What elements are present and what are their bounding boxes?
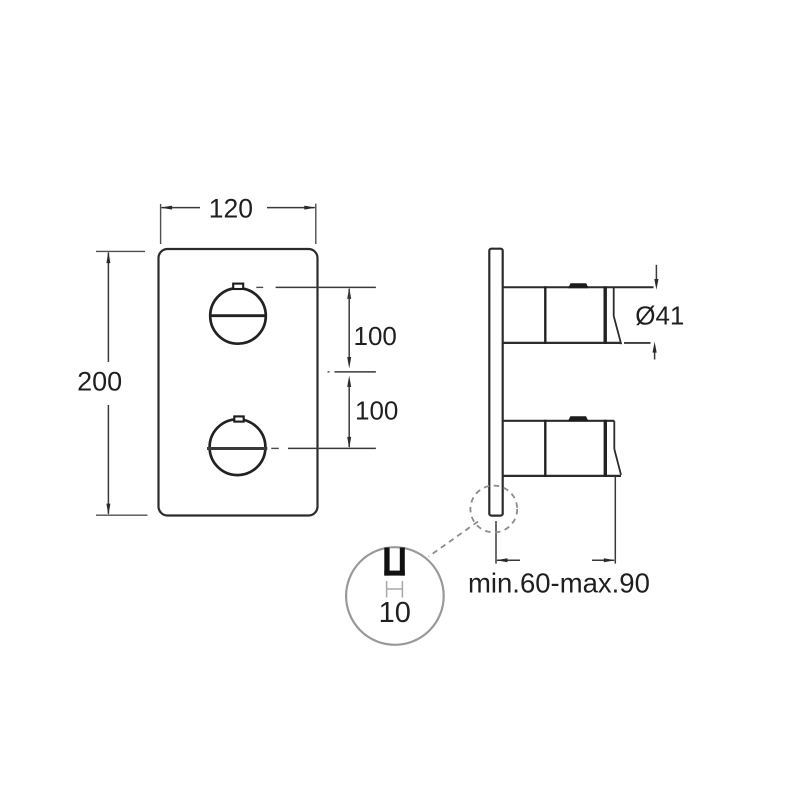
dim 10 line	[387, 588, 403, 590]
upper knob side: end thick vertical	[604, 286, 607, 344]
lower knob side: cap vertical	[613, 421, 615, 449]
svg-text:100: 100	[355, 396, 398, 426]
dim 120 line right segment with arrow	[267, 207, 315, 209]
dim 120 right extension line	[315, 204, 317, 244]
dim 10 right tick	[401, 581, 403, 598]
lower knob slot line	[207, 447, 267, 450]
upper knob circle	[210, 288, 266, 344]
dia41 bottom extension line	[624, 342, 651, 344]
wall plate front view	[159, 249, 318, 516]
lower knob side: top line	[503, 420, 615, 422]
dim 100 top extension line	[276, 286, 376, 288]
dia41 lower arrow segment (points up)	[654, 351, 656, 360]
dim 100 bottom extension line	[288, 447, 376, 449]
min60max90 right extension line	[614, 477, 616, 564]
plate profile U shape: right bar	[400, 548, 405, 576]
upper knob index tab	[233, 284, 243, 289]
upper knob side: top line + dia41 top extension	[503, 286, 654, 288]
dim 200 top extension line	[96, 250, 145, 252]
upper knob side: bottom line	[503, 342, 621, 344]
dim 200 bottom extension line	[96, 514, 148, 516]
dim 100 upper segment: arrow up, line, arrow down	[347, 287, 351, 299]
upper knob centerline dash	[256, 286, 263, 288]
min60max90 left extension line	[495, 521, 497, 564]
mid centerline dot	[328, 371, 330, 373]
upper knob side: inner vertical	[544, 286, 546, 344]
mid centerline	[335, 371, 376, 373]
svg-text:10: 10	[379, 597, 411, 629]
lower knob centerline dash	[271, 447, 279, 449]
dim 100 lower segment: arrow up, line, arrow down	[347, 376, 351, 388]
lower knob circle	[210, 419, 266, 475]
lower knob index tab	[234, 416, 243, 421]
side plate bar	[489, 249, 502, 516]
dim 200 line lower segment with arrow	[107, 405, 109, 514]
lower knob side tab	[568, 416, 588, 421]
dim 120 line left segment with arrow	[162, 207, 201, 209]
upper knob slot line	[210, 314, 267, 317]
min60max90 left arrow (points left)	[497, 559, 520, 561]
dia41 upper arrow segment (points down)	[655, 265, 657, 282]
upper knob side: cap vertical	[613, 287, 615, 316]
lower knob side: bottom line	[503, 475, 621, 477]
svg-text:Ø41: Ø41	[635, 301, 684, 331]
min60max90 right arrow (points right)	[592, 559, 614, 561]
svg-text:200: 200	[77, 367, 122, 397]
svg-text:min.60-max.90: min.60-max.90	[468, 568, 650, 599]
lower knob side: end thick vertical	[604, 420, 607, 477]
plate profile U shape: left bar	[384, 548, 389, 576]
lower knob side: cap slant	[614, 449, 621, 475]
svg-text:120: 120	[209, 194, 253, 224]
dim 120 left extension line	[160, 204, 162, 244]
dim 200 line upper segment with arrow	[107, 253, 109, 363]
plate profile U shape: bottom bar	[384, 571, 405, 576]
upper knob side tab	[568, 283, 589, 288]
upper knob side: cap slant	[614, 316, 622, 344]
big detail circle	[346, 547, 444, 645]
svg-text:100: 100	[354, 321, 397, 351]
small dashed detail circle on plate bottom	[470, 486, 517, 533]
dashed leader line	[429, 522, 478, 557]
dim 10 left tick	[386, 581, 388, 598]
lower knob side: inner vertical	[544, 420, 546, 477]
